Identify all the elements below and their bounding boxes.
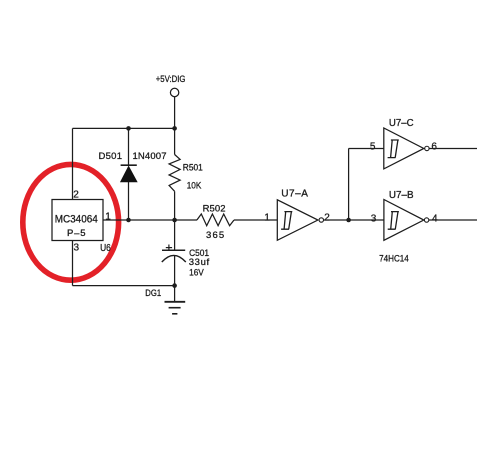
svg-text:4: 4: [432, 213, 438, 224]
svg-text:16V: 16V: [189, 267, 204, 278]
wire top rail: [73, 127, 175, 129]
wire ground stem: [174, 286, 176, 302]
wire diode branch upper: [128, 128, 130, 165]
wire U6 pin 3 down: [72, 241, 74, 286]
power symbol +5V:DIG: [170, 88, 178, 128]
svg-text:D501: D501: [99, 151, 123, 162]
junction dot ground: [172, 283, 177, 288]
junction dot diode top: [126, 126, 131, 131]
svg-text:P–5: P–5: [67, 228, 86, 239]
inverter U7-A: [277, 200, 323, 241]
svg-text:5: 5: [370, 142, 376, 153]
svg-text:2: 2: [73, 190, 79, 201]
svg-text:365: 365: [206, 230, 224, 241]
resistor R501: [169, 128, 180, 220]
svg-text:74HC14: 74HC14: [379, 253, 409, 264]
wire U7-C input: [349, 147, 384, 149]
junction dot C501 top: [172, 218, 177, 223]
wire U7-B output: [429, 219, 477, 221]
svg-text:MC34064: MC34064: [55, 213, 98, 225]
svg-text:R502: R502: [203, 204, 226, 215]
wire U6 pin 2 riser: [72, 128, 74, 199]
svg-text:U7–A: U7–A: [281, 189, 308, 200]
svg-text:U6: U6: [100, 243, 111, 254]
IC U6 MC34064 body: [52, 200, 103, 241]
svg-text:DG1: DG1: [145, 288, 161, 299]
svg-text:3: 3: [371, 213, 377, 224]
svg-text:2: 2: [324, 213, 330, 224]
polarity plus sign: [166, 245, 172, 251]
inverter U7-C: [384, 128, 429, 169]
junction dot diode bottom: [126, 218, 131, 223]
resistor R502: [197, 214, 234, 226]
svg-text:R501: R501: [183, 163, 203, 174]
wire U7-A output: [324, 219, 384, 221]
svg-text:6: 6: [431, 141, 437, 152]
svg-text:+5V:DIG: +5V:DIG: [156, 74, 186, 85]
svg-text:10K: 10K: [187, 181, 202, 192]
wire U6 pin 1 to R502: [103, 219, 197, 221]
svg-text:1N4007: 1N4007: [133, 151, 167, 162]
wire DG1 rail: [73, 285, 175, 287]
ground symbol: [165, 302, 186, 314]
diode D501: [121, 165, 137, 182]
junction dot R501 top: [172, 126, 177, 131]
red annotation ellipse: [23, 164, 119, 280]
svg-text:1: 1: [105, 211, 111, 222]
wire U7-C output: [429, 147, 477, 149]
svg-text:U7–B: U7–B: [389, 190, 414, 201]
svg-text:1: 1: [264, 213, 270, 224]
capacitor C501: [162, 220, 186, 286]
wire diode branch lower: [128, 182, 130, 220]
svg-text:U7–C: U7–C: [389, 118, 414, 129]
junction dot output node: [346, 218, 351, 223]
svg-text:3: 3: [74, 242, 80, 253]
inverter U7-B: [384, 200, 429, 241]
wire riser to U7-C: [348, 148, 350, 220]
wire R502 to U7-A input: [234, 219, 277, 221]
